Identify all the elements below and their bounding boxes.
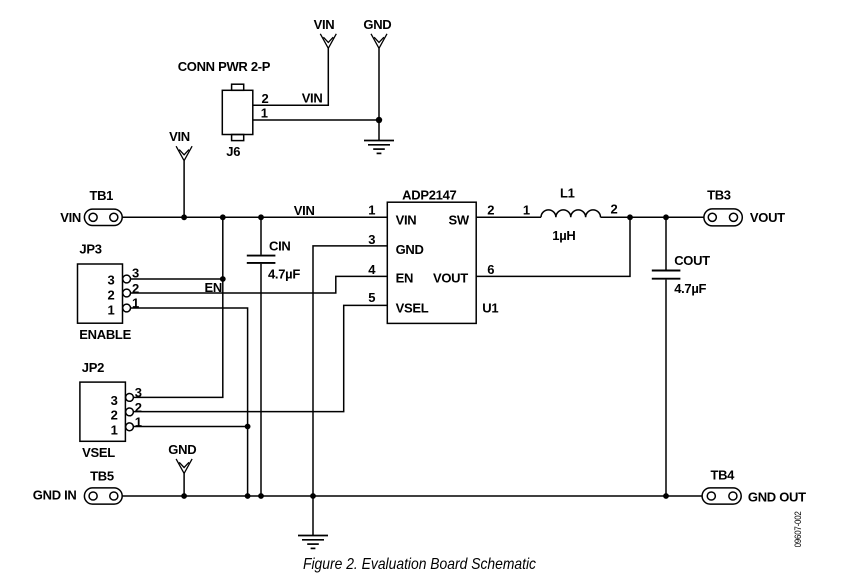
svg-text:GND: GND [363, 17, 391, 32]
svg-text:1: 1 [523, 202, 530, 217]
svg-text:CONN PWR 2-P: CONN PWR 2-P [178, 59, 271, 74]
junction dot JP3 pin1 branch / rail [245, 493, 251, 499]
junction dot J6 pin1 / GND [376, 117, 382, 123]
terminal block TB1 [84, 209, 122, 225]
svg-text:GND: GND [168, 442, 196, 457]
svg-text:VIN: VIN [60, 210, 81, 225]
svg-text:JP3: JP3 [79, 242, 101, 257]
wire CIN top [260, 217, 262, 255]
svg-text:ADP2147: ADP2147 [402, 187, 456, 202]
svg-text:ENABLE: ENABLE [79, 327, 131, 342]
svg-text:2: 2 [111, 408, 118, 423]
svg-text:1: 1 [107, 303, 114, 318]
wire U1 VOUT to output node [476, 217, 630, 276]
svg-text:TB1: TB1 [89, 188, 113, 203]
wire L1 to TB3 [601, 216, 704, 218]
power flag GND (bottom) [168, 442, 196, 474]
svg-text:CIN: CIN [269, 238, 291, 253]
ground (top) [364, 141, 394, 154]
svg-text:2: 2 [262, 91, 269, 106]
svg-text:SW: SW [449, 212, 470, 227]
junction dot VOUT / COUT [663, 214, 669, 220]
junction dot U1 GND / rail [310, 493, 316, 499]
svg-text:VSEL: VSEL [396, 300, 429, 315]
wire VIN rail [122, 216, 387, 218]
svg-text:JP2: JP2 [82, 360, 104, 375]
junction dot EN node [220, 276, 226, 282]
inductor L1 [541, 210, 601, 217]
svg-text:4: 4 [368, 262, 376, 277]
U1 pin numbers [368, 203, 494, 305]
capacitor C1 CIN [247, 256, 276, 263]
svg-text:VIN: VIN [169, 129, 190, 144]
power flag VIN (left) [169, 129, 192, 161]
JP2 pin numbers (outside) [135, 385, 142, 430]
svg-text:2: 2 [611, 201, 618, 216]
svg-text:GND: GND [396, 242, 424, 257]
junction dot COUT / rail [663, 493, 669, 499]
capacitor C2 COUT [652, 271, 681, 279]
svg-text:3: 3 [107, 273, 114, 288]
wire COUT top [665, 217, 667, 269]
JP3 pin numbers (inside) [107, 273, 114, 318]
svg-text:VSEL: VSEL [82, 445, 115, 460]
connector JP2 [80, 382, 133, 441]
terminal block TB4 [702, 488, 741, 504]
svg-text:1: 1 [135, 415, 142, 430]
wire U1 GND to ground rail [313, 246, 387, 496]
svg-text:J6: J6 [226, 144, 240, 159]
junction dot EN branch / rail [220, 214, 226, 220]
svg-text:1: 1 [111, 422, 118, 437]
svg-text:VIN: VIN [396, 212, 417, 227]
wire JP2 pin 1 [133, 426, 247, 428]
svg-text:1: 1 [261, 106, 268, 121]
junction dot JP2 pin 1 [245, 424, 251, 430]
svg-text:VOUT: VOUT [433, 271, 468, 286]
svg-text:2: 2 [135, 400, 142, 415]
svg-text:GND IN: GND IN [33, 488, 77, 503]
connector J6 [222, 84, 253, 140]
wire JP3 pin 2 to U1 EN [131, 276, 388, 293]
svg-text:EN: EN [396, 271, 413, 286]
JP2 pin numbers (inside) [111, 393, 118, 437]
wire J6 pin 1 [253, 119, 379, 121]
svg-text:COUT: COUT [674, 253, 710, 268]
svg-text:VOUT: VOUT [750, 210, 785, 225]
wire JP2 pin 2 to U1 VSEL [133, 305, 387, 411]
svg-text:3: 3 [368, 232, 375, 247]
svg-text:L1: L1 [560, 186, 575, 201]
connector JP3 [78, 264, 131, 323]
wire EN branch (rail to JP2 pin 3) [133, 217, 222, 397]
power flag GND (top) [363, 17, 391, 49]
wire GND flag to ground [378, 48, 380, 140]
ground (bottom) [298, 536, 328, 549]
power flag VIN (top) [314, 17, 337, 49]
wire JP3 pin 1 to GND rail [131, 308, 248, 496]
svg-text:3: 3 [132, 265, 139, 280]
svg-text:2: 2 [487, 203, 494, 218]
svg-text:VIN: VIN [294, 203, 315, 218]
terminal block TB5 [84, 488, 122, 504]
svg-text:6: 6 [487, 262, 494, 277]
svg-text:5: 5 [368, 290, 375, 305]
wire GND flag to GND rail [183, 473, 185, 496]
svg-text:4.7µF: 4.7µF [674, 281, 706, 296]
svg-text:VIN: VIN [314, 17, 335, 32]
svg-text:2: 2 [107, 287, 114, 302]
junction dot CIN / rail [258, 493, 264, 499]
svg-text:TB5: TB5 [90, 469, 114, 484]
svg-text:VIN: VIN [302, 91, 323, 106]
svg-text:09607-002: 09607-002 [793, 511, 804, 547]
svg-text:U1: U1 [482, 300, 498, 315]
JP3 pin numbers (outside) [132, 265, 139, 310]
svg-text:3: 3 [111, 393, 118, 408]
svg-text:1: 1 [368, 203, 375, 218]
svg-text:1µH: 1µH [552, 228, 575, 243]
junction dot CIN / rail [258, 214, 264, 220]
wire GND rail [122, 495, 702, 497]
wire ground stem (bottom) [312, 496, 314, 535]
wire COUT to GND rail [665, 280, 667, 496]
wire JP3 pin 3 to EN node [131, 278, 223, 280]
wire VIN flag to J6 pin 2 [253, 48, 328, 105]
svg-text:3: 3 [135, 385, 142, 400]
U1 pin names [396, 212, 470, 315]
svg-text:Figure 2. Evaluation Board Sch: Figure 2. Evaluation Board Schematic [303, 556, 536, 573]
junction dot VIN flag / rail [181, 214, 187, 220]
svg-text:GND OUT: GND OUT [748, 490, 806, 505]
wire VIN flag to VIN rail [183, 161, 185, 218]
svg-text:TB4: TB4 [710, 467, 735, 482]
junction dot GND flag / rail [181, 493, 187, 499]
junction dot SW node [627, 214, 633, 220]
IC U1 ADP2147 [387, 202, 476, 323]
wire CIN to GND rail [260, 264, 262, 496]
terminal block TB3 [704, 209, 742, 226]
svg-text:4.7µF: 4.7µF [268, 267, 300, 282]
wire U1 SW to L1 [476, 216, 541, 218]
svg-text:TB3: TB3 [707, 187, 731, 202]
